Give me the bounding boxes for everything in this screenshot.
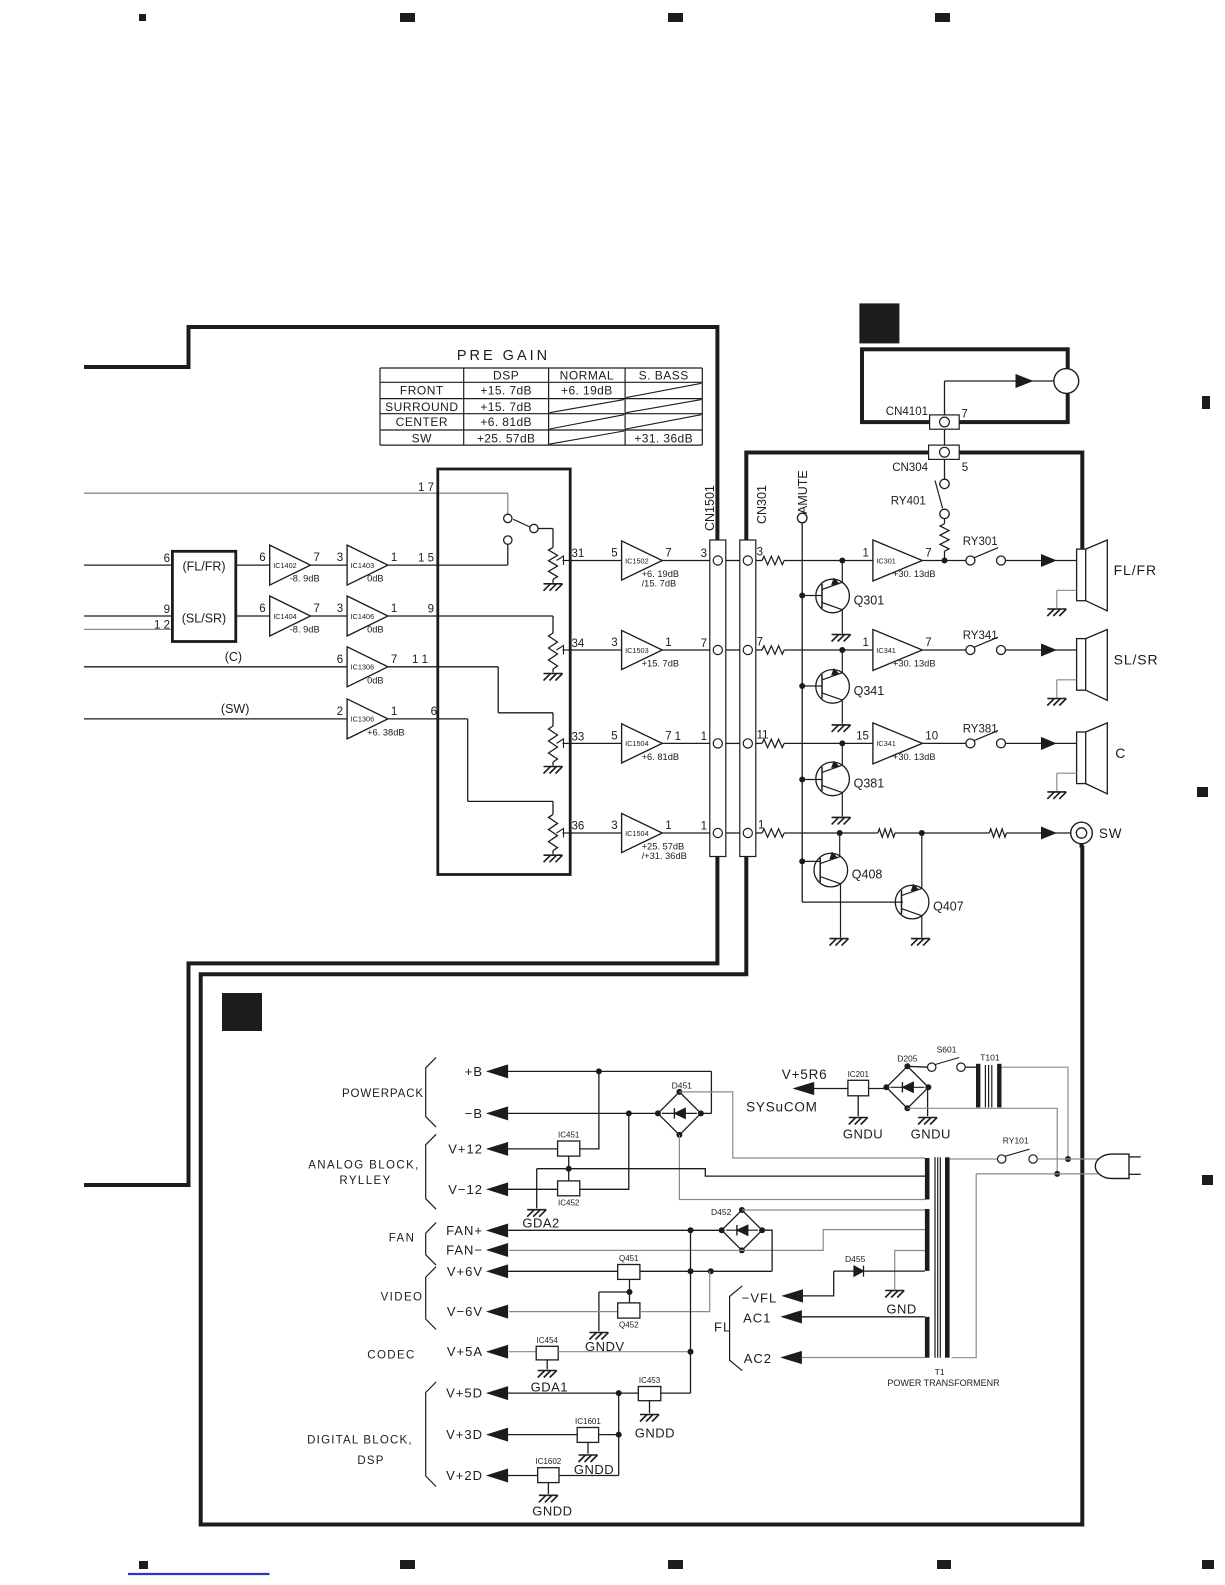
- svg-text:RY381: RY381: [963, 724, 998, 736]
- svg-text:Q452: Q452: [619, 1321, 639, 1330]
- svg-text:1 2: 1 2: [154, 620, 170, 632]
- svg-text:/15. 7dB: /15. 7dB: [642, 579, 677, 589]
- svg-text:6: 6: [259, 552, 265, 564]
- svg-text:3: 3: [337, 603, 343, 615]
- svg-text:CN304: CN304: [892, 462, 928, 474]
- svg-text:SURROUND: SURROUND: [385, 400, 458, 414]
- svg-text:RY401: RY401: [891, 496, 926, 508]
- svg-text:V−6V: V−6V: [447, 1304, 483, 1319]
- svg-text:IC1602: IC1602: [535, 1457, 561, 1466]
- svg-text:0dB: 0dB: [367, 574, 384, 584]
- svg-text:VIDEO: VIDEO: [381, 1292, 424, 1304]
- svg-text:AMUTE: AMUTE: [796, 470, 810, 514]
- svg-text:V+5A: V+5A: [447, 1344, 483, 1359]
- svg-text:D455: D455: [845, 1254, 866, 1264]
- svg-text:15: 15: [856, 730, 869, 742]
- svg-text:V+12: V+12: [448, 1141, 483, 1156]
- svg-text:1: 1: [701, 731, 707, 743]
- svg-text:IC1306: IC1306: [351, 663, 375, 672]
- svg-text:V+5D: V+5D: [446, 1386, 483, 1401]
- svg-text:GNDU: GNDU: [843, 1127, 883, 1142]
- svg-text:FL/FR: FL/FR: [1114, 562, 1157, 578]
- svg-text:IC452: IC452: [558, 1198, 580, 1207]
- svg-text:IC451: IC451: [558, 1131, 580, 1140]
- svg-text:GND: GND: [886, 1302, 916, 1317]
- svg-text:+B: +B: [465, 1064, 483, 1079]
- svg-text:36: 36: [572, 821, 585, 833]
- svg-text:5: 5: [962, 462, 968, 474]
- svg-text:IC1504: IC1504: [625, 829, 649, 838]
- svg-text:+15. 7dB: +15. 7dB: [642, 659, 679, 669]
- svg-text:2: 2: [337, 706, 343, 718]
- svg-text:C: C: [1115, 745, 1126, 761]
- svg-text:1 5: 1 5: [418, 553, 434, 565]
- svg-text:7: 7: [665, 730, 671, 742]
- svg-text:-8. 9dB: -8. 9dB: [290, 625, 320, 635]
- svg-text:+15. 7dB: +15. 7dB: [480, 384, 532, 398]
- svg-text:V+6V: V+6V: [447, 1264, 483, 1279]
- svg-text:3: 3: [337, 552, 343, 564]
- svg-text:-8. 9dB: -8. 9dB: [290, 574, 320, 584]
- svg-text:6: 6: [431, 706, 437, 718]
- svg-text:31: 31: [572, 548, 585, 560]
- svg-text:NORMAL: NORMAL: [560, 369, 614, 383]
- svg-text:GDA2: GDA2: [522, 1216, 559, 1231]
- svg-text:SYSuCOM: SYSuCOM: [746, 1100, 818, 1115]
- svg-text:7: 7: [701, 638, 707, 650]
- svg-text:DSP: DSP: [357, 1455, 384, 1467]
- svg-text:6: 6: [337, 654, 343, 666]
- svg-text:FAN+: FAN+: [446, 1223, 483, 1238]
- svg-text:IC453: IC453: [639, 1376, 661, 1385]
- svg-text:1: 1: [391, 552, 397, 564]
- svg-text:5: 5: [611, 730, 617, 742]
- svg-text:Q408: Q408: [852, 868, 883, 882]
- svg-text:IC341: IC341: [876, 646, 895, 655]
- svg-text:IC201: IC201: [848, 1070, 870, 1079]
- svg-text:6: 6: [164, 553, 170, 565]
- svg-text:33: 33: [572, 732, 585, 744]
- svg-text:7: 7: [665, 548, 671, 560]
- svg-text:11: 11: [757, 730, 769, 742]
- svg-text:1: 1: [701, 821, 707, 833]
- svg-text:RYLLEY: RYLLEY: [339, 1175, 391, 1187]
- svg-text:V+3D: V+3D: [446, 1427, 483, 1442]
- svg-text:+31. 36dB: +31. 36dB: [634, 431, 693, 445]
- svg-text:V−12: V−12: [448, 1182, 483, 1197]
- svg-text:1: 1: [862, 637, 868, 649]
- svg-text:CN301: CN301: [755, 485, 769, 524]
- svg-text:IC1503: IC1503: [625, 646, 649, 655]
- svg-text:IC1502: IC1502: [625, 556, 649, 565]
- svg-text:FRONT: FRONT: [400, 384, 444, 398]
- svg-text:FL: FL: [714, 1320, 731, 1335]
- svg-text:IC1402: IC1402: [273, 561, 297, 570]
- svg-text:SL/SR: SL/SR: [1114, 652, 1159, 668]
- svg-text:3: 3: [701, 548, 707, 560]
- svg-text:IC1403: IC1403: [351, 561, 375, 570]
- svg-text:10: 10: [925, 730, 938, 742]
- svg-text:0dB: 0dB: [367, 625, 384, 635]
- svg-text:GNDD: GNDD: [574, 1462, 614, 1477]
- svg-text:IC1504: IC1504: [625, 739, 649, 748]
- svg-text:SW: SW: [412, 431, 433, 445]
- svg-text:+6. 19dB: +6. 19dB: [642, 569, 679, 579]
- svg-text:S601: S601: [937, 1045, 957, 1055]
- svg-text:+30. 13dB: +30. 13dB: [893, 752, 936, 762]
- svg-text:+6. 38dB: +6. 38dB: [367, 727, 404, 737]
- svg-text:T101: T101: [980, 1053, 1000, 1063]
- svg-text:1: 1: [862, 548, 868, 560]
- svg-text:(FL/FR): (FL/FR): [182, 559, 225, 573]
- svg-text:3: 3: [611, 820, 617, 832]
- svg-text:Q381: Q381: [854, 776, 885, 790]
- svg-text:1 1: 1 1: [412, 654, 428, 666]
- svg-text:/+31. 36dB: /+31. 36dB: [642, 851, 687, 861]
- svg-text:Q301: Q301: [854, 594, 885, 608]
- svg-text:FAN−: FAN−: [446, 1243, 483, 1258]
- svg-text:7: 7: [314, 603, 320, 615]
- svg-text:7: 7: [757, 637, 763, 649]
- svg-text:5: 5: [611, 548, 617, 560]
- svg-text:S. BASS: S. BASS: [639, 369, 689, 383]
- svg-text:+6. 81dB: +6. 81dB: [642, 752, 679, 762]
- svg-text:T1: T1: [935, 1367, 945, 1377]
- svg-text:Q451: Q451: [619, 1254, 639, 1263]
- svg-text:3: 3: [611, 637, 617, 649]
- svg-text:−B: −B: [465, 1106, 483, 1121]
- svg-text:1: 1: [665, 820, 671, 832]
- svg-text:+15. 7dB: +15. 7dB: [480, 400, 532, 414]
- svg-text:Q341: Q341: [854, 684, 885, 698]
- svg-text:1: 1: [391, 706, 397, 718]
- svg-text:GDA1: GDA1: [531, 1380, 568, 1395]
- svg-text:D451: D451: [672, 1081, 693, 1091]
- svg-text:CODEC: CODEC: [367, 1350, 416, 1362]
- svg-text:7: 7: [961, 409, 967, 421]
- svg-text:1: 1: [391, 603, 397, 615]
- svg-text:+25. 57dB: +25. 57dB: [642, 842, 685, 852]
- svg-text:IC1406: IC1406: [351, 612, 375, 621]
- svg-text:ANALOG BLOCK,: ANALOG BLOCK,: [308, 1160, 420, 1172]
- svg-text:+6. 19dB: +6. 19dB: [561, 384, 613, 398]
- svg-text:7: 7: [391, 654, 397, 666]
- svg-text:DSP: DSP: [493, 369, 519, 383]
- svg-text:V+2D: V+2D: [446, 1468, 483, 1483]
- svg-text:IC341: IC341: [876, 739, 895, 748]
- svg-text:+30. 13dB: +30. 13dB: [893, 569, 936, 579]
- svg-text:DIGITAL BLOCK,: DIGITAL BLOCK,: [307, 1435, 413, 1447]
- svg-text:7: 7: [925, 637, 931, 649]
- svg-text:1: 1: [675, 731, 681, 743]
- svg-text:9: 9: [428, 604, 434, 616]
- svg-text:(C): (C): [225, 650, 242, 664]
- svg-text:FAN: FAN: [389, 1233, 416, 1245]
- svg-text:34: 34: [572, 638, 585, 650]
- svg-text:GNDD: GNDD: [532, 1504, 572, 1519]
- svg-text:Q407: Q407: [933, 900, 964, 914]
- svg-text:0dB: 0dB: [367, 675, 384, 685]
- svg-text:−VFL: −VFL: [742, 1291, 777, 1306]
- svg-text:6: 6: [259, 603, 265, 615]
- svg-text:GNDD: GNDD: [635, 1426, 675, 1441]
- svg-text:V+5R6: V+5R6: [782, 1067, 828, 1082]
- svg-text:PRE GAIN: PRE GAIN: [457, 348, 550, 364]
- svg-text:GNDU: GNDU: [911, 1127, 951, 1142]
- svg-text:+30. 13dB: +30. 13dB: [893, 659, 936, 669]
- svg-text:IC301: IC301: [876, 556, 895, 565]
- svg-text:1 7: 1 7: [418, 482, 434, 494]
- svg-text:IC1306: IC1306: [351, 715, 375, 724]
- svg-text:9: 9: [164, 604, 170, 616]
- svg-text:RY101: RY101: [1003, 1136, 1029, 1146]
- svg-text:7: 7: [314, 552, 320, 564]
- svg-text:D205: D205: [897, 1054, 918, 1064]
- svg-text:AC1: AC1: [743, 1311, 771, 1326]
- svg-text:POWERPACK: POWERPACK: [342, 1088, 424, 1100]
- svg-text:IC1601: IC1601: [575, 1417, 601, 1426]
- svg-text:(SL/SR): (SL/SR): [182, 611, 226, 625]
- svg-text:RY341: RY341: [963, 630, 998, 642]
- svg-text:POWER TRANSFORMENR: POWER TRANSFORMENR: [887, 1378, 1000, 1388]
- svg-text:IC1404: IC1404: [273, 612, 297, 621]
- svg-text:3: 3: [757, 547, 763, 559]
- svg-text:RY301: RY301: [963, 536, 998, 548]
- svg-text:7: 7: [925, 548, 931, 560]
- svg-text:CN1501: CN1501: [703, 485, 717, 531]
- svg-text:1: 1: [665, 637, 671, 649]
- svg-text:D452: D452: [711, 1207, 732, 1217]
- svg-text:IC454: IC454: [537, 1336, 559, 1345]
- svg-text:CN4101: CN4101: [886, 406, 928, 418]
- svg-text:CENTER: CENTER: [396, 415, 448, 429]
- svg-text:+6. 81dB: +6. 81dB: [480, 415, 532, 429]
- svg-text:(SW): (SW): [221, 702, 249, 716]
- svg-text:AC2: AC2: [744, 1351, 772, 1366]
- svg-text:1: 1: [758, 820, 764, 832]
- svg-text:+25. 57dB: +25. 57dB: [477, 431, 536, 445]
- svg-text:SW: SW: [1099, 826, 1123, 841]
